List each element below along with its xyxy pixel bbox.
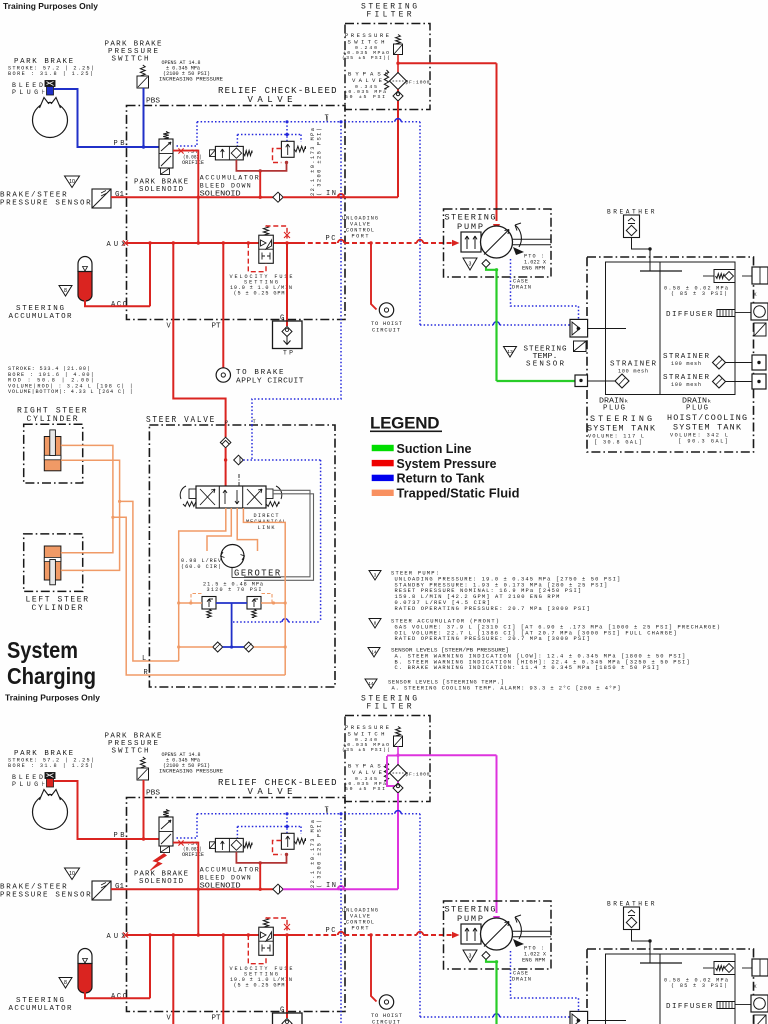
svg-text:(60.0 CIR|: (60.0 CIR| (181, 564, 221, 570)
wire sensor to IN (111, 196, 127, 198)
right steer cylinder enclosure (24, 424, 83, 483)
wire port C geroter (237, 508, 257, 551)
top circuit (0, 3, 768, 453)
svg-text:ACCUMULATOR: ACCUMULATOR (200, 867, 259, 874)
TP tank port (273, 1013, 303, 1024)
to brake apply circuit port (216, 368, 230, 382)
PTO pointer (513, 939, 524, 947)
bleed plug (45, 81, 55, 87)
wire branch to R (111, 516, 114, 519)
svg-text:PLUG: PLUG (686, 405, 708, 413)
pilot drop to solenoid (176, 122, 197, 146)
svg-text:BRAKE/STEER: BRAKE/STEER (0, 192, 67, 200)
svg-text:PBS: PBS (146, 98, 160, 106)
svg-text:BLEED DOWN: BLEED DOWN (200, 875, 251, 882)
svg-text:DRAIN: DRAIN (512, 285, 531, 291)
strainer right 2 (713, 375, 726, 388)
pilot line cross (233, 621, 282, 623)
svg-text:STEER VALVE: STEER VALVE (146, 415, 216, 425)
svg-text:TO HOIST: TO HOIST (371, 1013, 403, 1019)
svg-text:DIFFUSER: DIFFUSER (666, 1003, 713, 1011)
wire PC dashed (300, 242, 338, 244)
direct mechanical link (238, 474, 240, 486)
pilot cross rail (237, 134, 301, 136)
wire IN (127, 888, 273, 890)
strainer right 1 (713, 356, 726, 369)
svg-text:STRAINER: STRAINER (610, 361, 656, 369)
wire PT (222, 243, 224, 368)
svg-text:TO BRAKE: TO BRAKE (236, 369, 284, 377)
wire IN charged (283, 888, 345, 890)
to hoist circuit port (379, 303, 393, 317)
svg-text:50 ±5 PSI: 50 ±5 PSI (345, 94, 385, 100)
svg-text:INCREASING PRESSURE: INCREASING PRESSURE (159, 769, 223, 775)
orifice mark (178, 148, 183, 153)
svg-text:LEGEND: LEGEND (370, 414, 440, 433)
svg-text:ACC: ACC (111, 301, 127, 309)
velocity fuse pilot dashes (248, 243, 266, 272)
svg-text:50 ±5 PSI: 50 ±5 PSI (345, 786, 385, 792)
wire V (173, 243, 225, 425)
svg-text:PLUG: PLUG (603, 405, 625, 413)
wire port B geroter (207, 508, 231, 551)
wire AUX to ACC (149, 935, 151, 998)
svg-text:22.1 ±0.173 MPa: 22.1 ±0.173 MPa (310, 127, 316, 196)
svg-text:A. STEERING COOLING TEMP. ALAR: A. STEERING COOLING TEMP. ALARM: 93.3 ± … (392, 685, 621, 691)
steering temp sensor (574, 341, 587, 352)
wire sensor to IN (111, 888, 127, 890)
pump rotation arrow (515, 917, 521, 939)
right steer cylinder (44, 437, 61, 471)
pilot drop to relief valve (286, 814, 288, 833)
pump P1 (481, 918, 513, 950)
check valve IN (273, 192, 283, 202)
check valve pilot (234, 455, 244, 465)
valve springs (183, 502, 196, 507)
svg-text:( 85 ± 3 PSI|: ( 85 ± 3 PSI| (671, 983, 727, 989)
prime mover (461, 924, 481, 944)
note triangle 3 (463, 258, 477, 270)
svg-text:CIRCUIT: CIRCUIT (372, 1020, 401, 1024)
note triangle 13 (504, 347, 517, 358)
node filter outlet (396, 754, 399, 757)
steering accumulator (78, 257, 92, 273)
svg-text:STRAINER: STRAINER (663, 353, 709, 361)
node PB (142, 837, 145, 840)
tank corner sensor (754, 1015, 766, 1024)
wire G (286, 243, 288, 326)
svg-text:100 mesh: 100 mesh (671, 361, 701, 367)
wire pump suction (486, 268, 497, 270)
svg-text:Charging: Charging (7, 663, 96, 689)
wire bleed down drain (236, 160, 286, 171)
pressure switch PBS symbol (140, 757, 145, 768)
pilot line T rail (197, 121, 395, 123)
pump drain check (482, 260, 490, 268)
svg-text:PUMP: PUMP (457, 222, 483, 232)
wire P2 (225, 448, 227, 486)
return port (570, 1011, 588, 1024)
wire filter to IN port (397, 782, 399, 784)
tank corner sensor (754, 323, 766, 336)
strainer left (615, 374, 629, 388)
svg-text:( 85 ± 3 PSI|: ( 85 ± 3 PSI| (671, 291, 727, 297)
svg-text:STEERING: STEERING (16, 305, 64, 313)
svg-text:DRAIN: DRAIN (512, 977, 531, 983)
diffuser (717, 1002, 735, 1009)
tank inner shell (606, 262, 736, 395)
hoist port 1 (752, 355, 766, 370)
svg-text:System: System (7, 637, 78, 663)
PTO shaft (513, 238, 552, 240)
tank fill level (640, 962, 682, 964)
crossover relief valve 2 (247, 597, 261, 610)
svg-text:βF:1000: βF:1000 (406, 80, 430, 86)
valve end caps (189, 489, 196, 499)
note 14 sensor levels pressure (368, 648, 380, 658)
wire AUX to ACC (149, 243, 151, 306)
breather (624, 215, 640, 238)
wire breather (632, 238, 651, 250)
pilot cross rail (237, 826, 301, 828)
svg-text:SYSTEM TANK: SYSTEM TANK (673, 423, 742, 433)
svg-text:PT: PT (212, 1015, 221, 1023)
svg-text:3: 3 (469, 261, 472, 267)
svg-text:STRAINER: STRAINER (663, 374, 709, 382)
wire G (286, 935, 288, 1018)
crossover relief valve 1 (202, 597, 216, 610)
svg-text:ENG RPM: ENG RPM (522, 958, 545, 964)
svg-text:BLEED DOWN: BLEED DOWN (200, 183, 251, 190)
note 14 sensor levels temp (365, 679, 377, 689)
wire P (225, 425, 227, 437)
wire filter to pump (398, 62, 497, 64)
wire IN charged (283, 196, 345, 198)
svg-text:PORT: PORT (352, 234, 369, 240)
velocity fuse (263, 918, 268, 928)
svg-text:GEROTER: GEROTER (234, 569, 281, 579)
note 3 steer pump (369, 571, 381, 581)
svg-text:[ 90.3 GAL]: [ 90.3 GAL] (678, 439, 728, 445)
pump P1 (481, 226, 513, 258)
note triangle 3 (463, 950, 477, 962)
valve lever arcs (180, 486, 186, 499)
node filter outlet (396, 62, 399, 65)
legend return (372, 475, 394, 481)
check valve IN (273, 884, 283, 894)
note triangle 8 (59, 286, 72, 297)
feedback link (244, 490, 310, 577)
tank right motor (751, 995, 768, 1012)
accumulator bleed down solenoid SV2 (210, 842, 216, 849)
svg-text:HOIST/COOLING: HOIST/COOLING (667, 413, 747, 423)
wire pump suction (486, 960, 497, 962)
wire relief rail (179, 602, 202, 604)
breather (624, 907, 640, 930)
pilot nodes (285, 120, 288, 123)
svg-text:SOLENOID: SOLENOID (139, 186, 184, 194)
svg-text:STEERING: STEERING (445, 213, 496, 223)
wire relief blue (216, 602, 247, 604)
svg-text:14: 14 (372, 649, 377, 654)
wire PBS (143, 88, 145, 147)
svg-text:BRAKE/STEER: BRAKE/STEER (0, 884, 67, 892)
svg-text:3: 3 (469, 953, 472, 959)
tank relief check (714, 270, 735, 283)
wire port A (179, 508, 226, 647)
svg-text:PBS: PBS (146, 790, 160, 798)
wire ACC (85, 992, 150, 999)
makeup check 2 (244, 642, 254, 652)
svg-text:LINK: LINK (258, 525, 276, 531)
svg-text:8: 8 (64, 980, 67, 986)
tank top right port (752, 959, 768, 976)
svg-text:ACC: ACC (111, 993, 127, 1001)
steering pump enclosure (444, 901, 552, 969)
svg-text:(5 ± 0.25 GPM): (5 ± 0.25 GPM) (234, 983, 289, 989)
note triangle 10 (65, 868, 80, 880)
pilot line T drop (251, 425, 253, 460)
wire breather (632, 930, 651, 942)
bleed plug (45, 773, 55, 779)
svg-text:ACCUMULATOR: ACCUMULATOR (9, 1005, 72, 1013)
wire bleed plug to PB (54, 89, 159, 147)
svg-text:PRESSURE SENSOR: PRESSURE SENSOR (0, 200, 91, 208)
filter check valve (393, 783, 403, 793)
park brake solenoid SV1 (163, 810, 169, 818)
wire AUX (127, 934, 301, 936)
svg-text:( 3200 ±25 PSI|: ( 3200 ±25 PSI| (317, 820, 323, 888)
wire IN (127, 196, 273, 198)
svg-text:System Pressure: System Pressure (397, 457, 497, 471)
wire drain to IN (259, 171, 261, 197)
energized lightning bolt (150, 854, 167, 871)
tank enclosure (587, 257, 754, 452)
svg-text:13: 13 (507, 349, 513, 355)
pilot line unloading (340, 814, 342, 935)
wire bleed down drain (236, 852, 286, 863)
park brake chamber (33, 795, 68, 830)
svg-text:Trapped/Static Fluid: Trapped/Static Fluid (397, 487, 520, 501)
velocity fuse pilot dashes (248, 935, 266, 964)
relief check-bleed valve enclosure (127, 798, 346, 1012)
pilot line return to tank (419, 122, 421, 325)
steering pump enclosure (444, 209, 552, 277)
svg-text:CYLINDER: CYLINDER (32, 604, 83, 613)
relief valve RV1 (281, 833, 294, 849)
pilot line case drain (511, 259, 579, 319)
PTO shaft (513, 930, 552, 932)
svg-text:BORE : 31.8 | 1.25|: BORE : 31.8 | 1.25| (8, 763, 93, 769)
relief valve pilot dashes (273, 149, 282, 163)
svg-text:TO HOIST: TO HOIST (371, 321, 403, 327)
geroter (221, 545, 244, 568)
steering accumulator (78, 949, 92, 965)
filter element F1 (397, 747, 399, 766)
wire bleed plug to PB (54, 781, 159, 839)
pilot line unloading (340, 122, 342, 243)
bypass loop wire (387, 755, 398, 757)
relief valve RV1 (281, 141, 294, 157)
accumulator bleed down solenoid SV2 (210, 150, 216, 157)
svg-text:(35 ±5 PSI)(: (35 ±5 PSI)( (342, 55, 390, 61)
relief valve pilot dashes (273, 841, 282, 855)
svg-text:L: L (142, 655, 146, 663)
wire solenoid drain (173, 151, 198, 243)
park brake chamber (33, 103, 68, 138)
pressure switch PS1 (396, 35, 401, 45)
filter check valve (393, 91, 403, 101)
wire to hoist circuit (371, 935, 377, 1002)
svg-text:RATED OPERATING PRESSURE: 20.7: RATED OPERATING PRESSURE: 20.7 MPa [3000… (395, 606, 590, 612)
svg-text:PT: PT (212, 323, 221, 331)
pump drain check (482, 952, 490, 960)
tank fill level (640, 270, 682, 272)
svg-text:(5 ± 0.25 GPM): (5 ± 0.25 GPM) (234, 291, 289, 297)
orifice mark (178, 840, 183, 845)
steering filter enclosure (345, 716, 430, 802)
to hoist circuit port (379, 995, 393, 1009)
wire PC dashed (300, 934, 338, 936)
TP tank port (273, 321, 303, 349)
wire to hoist circuit (371, 243, 377, 310)
note triangle 8 (59, 978, 72, 989)
svg-text:ORIFICE: ORIFICE (182, 852, 204, 858)
steer valve enclosure (149, 425, 335, 687)
legend pressure (372, 460, 394, 466)
pump rotation arrow (515, 225, 521, 247)
legend trapped (372, 490, 394, 496)
svg-text:CIRCUIT: CIRCUIT (372, 328, 401, 334)
svg-text:ACCUMULATOR: ACCUMULATOR (9, 313, 72, 321)
wire makeup rail (179, 646, 213, 648)
svg-text:22.1 ±0.173 MPa: 22.1 ±0.173 MPa (310, 819, 316, 888)
pressure switch PS1 (396, 727, 401, 737)
wire ACC (85, 300, 150, 307)
svg-text:PC: PC (326, 235, 336, 243)
svg-text:PUMP: PUMP (457, 914, 483, 924)
pilot line case drain (511, 951, 579, 1011)
pilot line return to tank (419, 814, 421, 1017)
svg-text:CYLINDER: CYLINDER (27, 415, 78, 424)
wire V (173, 935, 225, 1024)
pilot line to relief rail (243, 459, 320, 461)
bottom circuit (charging state) (0, 695, 768, 1024)
pressure sensor symbol (92, 189, 111, 208)
bypass spring (384, 762, 388, 781)
svg-text:STEERING: STEERING (445, 905, 496, 915)
svg-text:SOLENOID: SOLENOID (139, 878, 184, 886)
svg-text:SENSOR: SENSOR (526, 361, 564, 369)
svg-text:Return to Tank: Return to Tank (397, 472, 485, 486)
svg-text:PRESSURE SENSOR: PRESSURE SENSOR (0, 892, 91, 900)
pilot line to steer valve (252, 243, 341, 425)
svg-text:ORIFICE: ORIFICE (182, 160, 204, 166)
relief pilot dashes (191, 594, 202, 604)
svg-text:BORE : 31.8 | 1.25|: BORE : 31.8 | 1.25| (8, 71, 93, 77)
svg-text:SYSTEM TANK: SYSTEM TANK (587, 424, 656, 434)
makeup check 1 (213, 642, 223, 652)
wire filter to IN port (397, 90, 399, 92)
steer directional valve (196, 486, 266, 508)
pressure switch PBS symbol (140, 65, 145, 76)
svg-text:βF:1000: βF:1000 (406, 772, 430, 778)
svg-text:APPLY CIRCUIT: APPLY CIRCUIT (236, 378, 304, 386)
svg-text:DIFFUSER: DIFFUSER (666, 311, 713, 319)
wire drain to IN (259, 863, 261, 889)
wire branch to L (118, 500, 121, 503)
svg-text:Training Purposes Only: Training Purposes Only (3, 1, 98, 11)
wire L trunk (178, 647, 180, 661)
svg-text:Training Purposes Only: Training Purposes Only (5, 693, 100, 703)
note triangle 10 (65, 176, 80, 188)
prime mover (461, 232, 481, 252)
svg-text:PORT: PORT (352, 926, 369, 932)
svg-text:C. BRAKE WARNING INDICATION: 1: C. BRAKE WARNING INDICATION: 11.4 ± 0.34… (395, 665, 660, 671)
tank enclosure (587, 949, 754, 1024)
legend suction (372, 445, 394, 451)
hoist port 2 (752, 374, 766, 389)
svg-text:10: 10 (69, 179, 75, 185)
svg-text:ACCUMULATOR: ACCUMULATOR (200, 175, 259, 182)
return port (570, 319, 588, 337)
wire filter to pump (398, 754, 497, 756)
left steer cylinder enclosure (24, 534, 83, 592)
note 8 steer accumulator (369, 619, 381, 629)
svg-text:Suction Line: Suction Line (397, 442, 472, 456)
svg-text:10: 10 (69, 871, 75, 877)
svg-text:( 3200 ±25 PSI|: ( 3200 ±25 PSI| (317, 128, 323, 196)
PTO pointer (513, 247, 524, 255)
svg-text:PC: PC (326, 927, 336, 935)
svg-text:3120 ± 70 PSI: 3120 ± 70 PSI (207, 587, 262, 593)
steering filter enclosure (345, 24, 430, 110)
wire port D (243, 508, 285, 647)
svg-text:100 mesh: 100 mesh (671, 382, 701, 388)
pilot drop to solenoid (176, 814, 197, 838)
node PB (142, 145, 145, 148)
park brake solenoid SV1 (163, 132, 169, 140)
tank right motor (751, 303, 768, 320)
tank top right port (752, 267, 768, 284)
wire solenoid drain (173, 843, 198, 935)
svg-text:INCREASING PRESSURE: INCREASING PRESSURE (159, 77, 223, 83)
svg-text:ENG RPM: ENG RPM (522, 266, 545, 272)
bypass spring (384, 70, 388, 89)
wire right cyl rod to left cyl rod (61, 460, 120, 570)
svg-text:(35 ±5 PSI)(: (35 ±5 PSI)( (342, 747, 390, 753)
wire PT (222, 935, 224, 1024)
pilot drop to relief valve (286, 122, 288, 141)
pressure sensor symbol (92, 881, 111, 900)
pilot line unloading bottom continuation (340, 935, 342, 1024)
wire AUX (127, 242, 301, 244)
svg-text:14: 14 (369, 681, 374, 686)
tank inner shell (606, 954, 736, 1024)
tank relief check (714, 962, 735, 975)
svg-text:8: 8 (64, 288, 67, 294)
relief check-bleed valve enclosure (127, 106, 346, 320)
wire PBS (143, 780, 145, 839)
svg-text:STEERING: STEERING (16, 997, 64, 1005)
left steer cylinder (44, 546, 61, 580)
diffuser (717, 310, 735, 317)
wire right cyl head to left cyl head (61, 445, 113, 552)
svg-text:RATED OPERATING PRESSURE: 20.7: RATED OPERATING PRESSURE: 20.7 MPa [3000… (395, 636, 590, 642)
suction tank port (575, 375, 588, 387)
wire R trunk (284, 647, 286, 675)
svg-text:[ 30.8 GAL]: [ 30.8 GAL] (594, 440, 642, 446)
